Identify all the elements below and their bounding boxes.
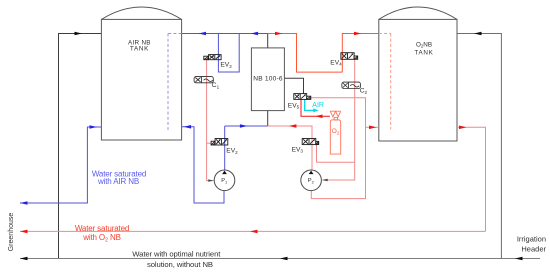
svg-text:Water saturated: Water saturated (75, 224, 129, 233)
svg-text:NB 100-6: NB 100-6 (253, 76, 283, 83)
svg-text:with AIR NB: with AIR NB (97, 177, 139, 186)
svg-text:O2NB: O2NB (416, 41, 432, 48)
svg-text:P2: P2 (308, 178, 315, 184)
svg-text:AIR: AIR (312, 102, 324, 109)
svg-text:TANK: TANK (414, 49, 433, 56)
svg-text:Irrigation: Irrigation (517, 235, 546, 244)
svg-text:C2: C2 (360, 88, 368, 95)
svg-text:Header: Header (521, 245, 546, 254)
svg-text:P1: P1 (221, 178, 228, 184)
svg-text:Greenhouse: Greenhouse (8, 213, 15, 252)
svg-text:EV4: EV4 (330, 59, 342, 66)
svg-text:TANK: TANK (130, 46, 149, 53)
svg-text:EV2: EV2 (220, 62, 232, 69)
svg-text:solution, without NB: solution, without NB (147, 260, 213, 269)
svg-text:Water with optimal nutrient: Water with optimal nutrient (132, 250, 221, 259)
svg-text:O2: O2 (332, 128, 340, 135)
svg-text:EV2: EV2 (226, 148, 238, 155)
svg-text:C1: C1 (212, 82, 220, 89)
svg-text:EV5: EV5 (288, 102, 300, 109)
svg-text:with O2 NB: with O2 NB (82, 233, 121, 244)
svg-text:EV3: EV3 (292, 146, 304, 153)
